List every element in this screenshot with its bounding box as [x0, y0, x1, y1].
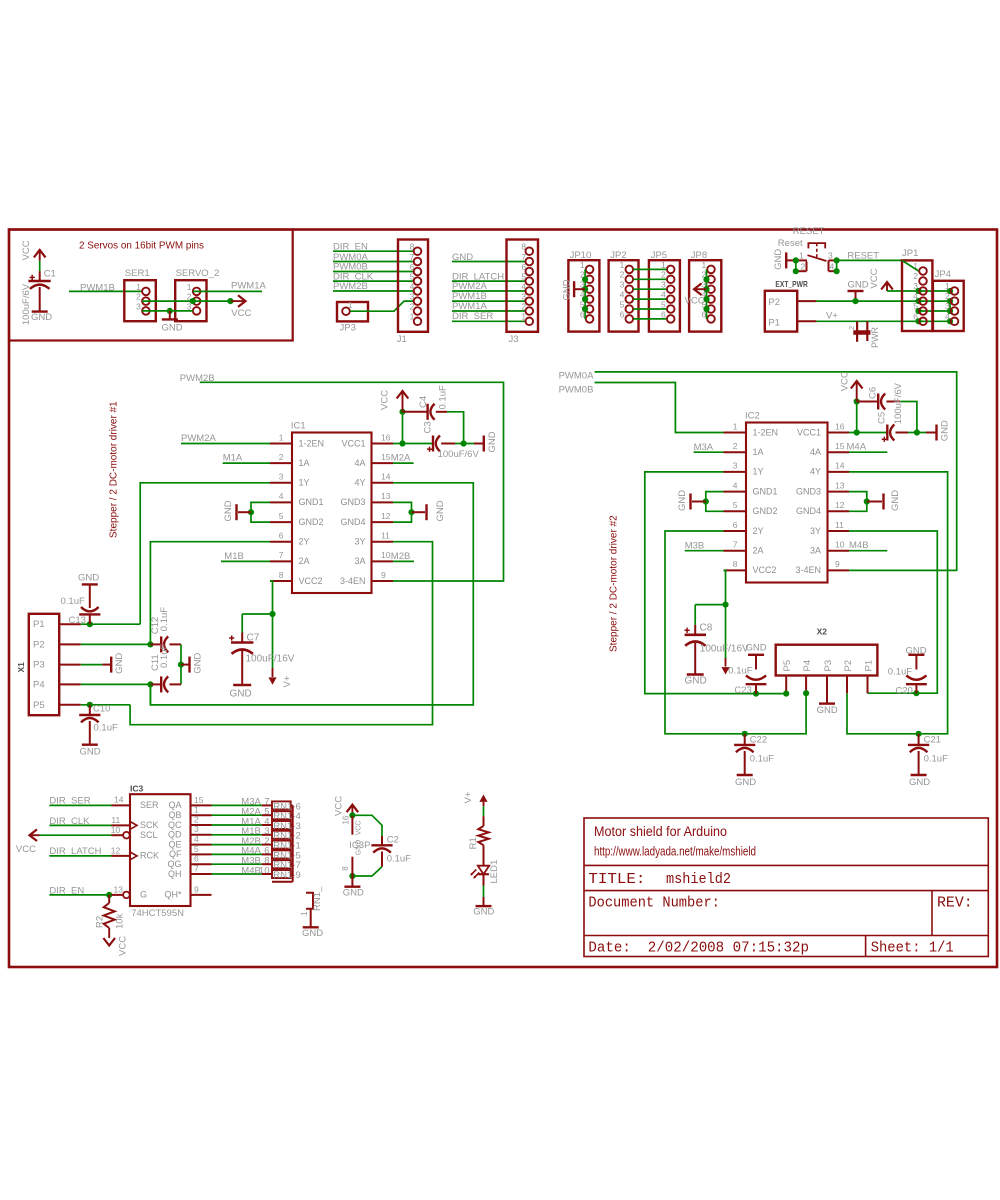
wire IC1 1Y to X1 P1	[140, 483, 270, 624]
svg-text:GND: GND	[773, 249, 784, 270]
svg-text:C21: C21	[924, 735, 941, 746]
svg-text:3: 3	[733, 461, 738, 471]
svg-text:16: 16	[381, 432, 391, 442]
ground IC2 right	[867, 501, 882, 503]
svg-text:6: 6	[661, 309, 666, 319]
power VCC down R2	[103, 938, 115, 946]
power V+ IC1	[272, 614, 274, 668]
diode LED1	[478, 866, 489, 875]
junction C4 row	[399, 409, 405, 415]
lead IC3 SCL	[112, 834, 124, 836]
svg-text:9: 9	[835, 559, 840, 569]
svg-text:PWM2A: PWM2A	[181, 433, 217, 444]
svg-text:1: 1	[733, 421, 738, 431]
wire P2 net	[816, 300, 950, 302]
junction JP1 pin4	[915, 298, 921, 304]
svg-text:GND2: GND2	[753, 506, 778, 516]
svg-text:GND: GND	[302, 928, 323, 939]
svg-text:1: 1	[187, 282, 192, 292]
svg-text:EXT_PWR: EXT_PWR	[775, 280, 807, 289]
svg-text:Stepper / 2 DC-motor driver #2: Stepper / 2 DC-motor driver #2	[609, 515, 620, 652]
ground LED1	[483, 897, 485, 906]
resistor R1	[483, 816, 485, 826]
svg-text:2Y: 2Y	[299, 537, 310, 547]
lead IC3 G	[112, 894, 124, 896]
wire VCC row to JP4 pin1	[887, 290, 950, 292]
title block divider row2	[584, 890, 988, 892]
servo section box	[9, 230, 293, 341]
wire M4A to RN1	[212, 853, 263, 855]
wire V+ to R1	[483, 806, 485, 816]
svg-text:C6: C6	[867, 387, 878, 399]
ground IC1 left	[238, 511, 251, 513]
svg-text:VCC: VCC	[333, 796, 344, 816]
wire IC1 GND3-GND4 bracket	[393, 502, 412, 522]
power V+ IC2	[725, 605, 727, 658]
connector J1 box	[398, 240, 428, 332]
svg-text:C5: C5	[877, 412, 888, 424]
svg-text:1: 1	[348, 300, 353, 310]
svg-text:5: 5	[194, 844, 199, 854]
svg-text:0.1uF: 0.1uF	[61, 596, 85, 607]
wire PWM1A from SERVO_2 pin1	[193, 290, 262, 292]
RN1_ common gate	[306, 893, 313, 909]
power VCC right arrow	[231, 300, 245, 302]
IC3 SCK clock wedge	[130, 822, 137, 830]
svg-text:M4A: M4A	[847, 442, 867, 453]
resistor RN1-1	[262, 844, 272, 846]
ground below C1	[32, 310, 48, 312]
connector JP3 pin circle	[342, 307, 350, 315]
svg-text:14: 14	[381, 472, 391, 482]
wire M1A to RN1	[212, 824, 263, 826]
capacitor C20 0.1uF	[908, 654, 924, 656]
connector JP8 circles	[707, 266, 715, 274]
wire LED to gnd	[483, 886, 485, 898]
junction IC3P gnd	[349, 873, 355, 879]
svg-text:Sheet: 1/1: Sheet: 1/1	[871, 939, 954, 957]
svg-text:11: 11	[381, 531, 390, 541]
svg-text:GND: GND	[906, 645, 927, 656]
wire X1 P3 to gnd	[81, 664, 103, 666]
title block REV divider	[931, 891, 933, 936]
LED1 emission arrows	[471, 870, 476, 875]
connector JP4 box	[933, 281, 964, 331]
title block outer box	[584, 818, 988, 957]
wire VCC to C1	[39, 261, 41, 271]
svg-text:11: 11	[111, 815, 120, 825]
connector SER1 box	[124, 280, 156, 321]
connector J3 box	[507, 240, 539, 332]
svg-text:1: 1	[279, 432, 284, 442]
power V+ LED	[479, 795, 487, 802]
op-amp IC2 box	[746, 423, 828, 583]
svg-text:13: 13	[835, 480, 845, 490]
IC3 G bubble	[123, 892, 130, 899]
svg-text:GND4: GND4	[796, 506, 821, 516]
IC2 right pin leads	[828, 432, 850, 434]
svg-text:JP3: JP3	[340, 322, 356, 333]
svg-text:7: 7	[521, 252, 526, 262]
wire DIR_CLK	[49, 824, 111, 826]
svg-text:GND: GND	[890, 490, 901, 511]
svg-text:Document Number:: Document Number:	[588, 894, 720, 912]
wire IC1 4Y to X1 P4 route	[150, 483, 473, 705]
wire C6 to pin16 row	[900, 402, 917, 433]
wire servo pin3 bus	[142, 310, 193, 312]
svg-text:2: 2	[521, 301, 526, 311]
ground C10	[82, 744, 98, 746]
svg-text:6: 6	[194, 854, 199, 864]
svg-text:1: 1	[580, 260, 585, 270]
svg-text:VCC1: VCC1	[797, 427, 821, 437]
junction C21	[916, 731, 922, 737]
svg-text:GND: GND	[162, 323, 183, 334]
wire IC1 GND1-GND2 bracket	[251, 502, 270, 522]
junction JP1 pin5	[915, 308, 921, 314]
svg-text:2: 2	[847, 326, 856, 330]
svg-text:JP1: JP1	[902, 248, 918, 259]
wire DIR_LATCH	[49, 855, 111, 857]
svg-text:1: 1	[136, 282, 141, 292]
IC3P vcc pin	[351, 815, 353, 834]
capacitor C7 100uF/16V	[241, 614, 243, 633]
svg-text:2: 2	[194, 814, 199, 824]
connector JP3 box	[337, 302, 368, 321]
wire switch left pins	[795, 260, 797, 271]
svg-text:4: 4	[410, 281, 415, 291]
capacitor C23 0.1uF	[748, 654, 764, 656]
junction IC2 gnd left	[703, 498, 709, 504]
svg-text:QH*: QH*	[164, 890, 182, 900]
svg-text:http://www.ladyada.net/make/ms: http://www.ladyada.net/make/mshield	[594, 844, 756, 859]
resistor RN1-6	[262, 804, 272, 806]
junction X2 P5	[783, 691, 789, 697]
wire VCC stem	[402, 412, 404, 444]
lead IC3 SCK	[112, 824, 131, 826]
svg-text:RCK: RCK	[140, 851, 159, 861]
junction JP4 pin1	[947, 288, 953, 294]
junctions switch left	[793, 257, 799, 263]
ground at reset switch	[785, 252, 787, 268]
svg-text:4A: 4A	[810, 447, 821, 457]
wire to C8	[695, 604, 725, 606]
svg-text:13: 13	[381, 491, 391, 501]
wire IC3P to C2 top	[352, 815, 382, 836]
svg-text:C13: C13	[69, 615, 86, 626]
svg-text:2Y: 2Y	[753, 526, 764, 536]
svg-text:QH: QH	[168, 869, 182, 879]
wire PWM2A to pin1	[181, 443, 270, 445]
svg-text:7: 7	[194, 863, 199, 873]
svg-text:GND: GND	[487, 431, 498, 452]
svg-text:JP4: JP4	[935, 269, 951, 280]
svg-text:6: 6	[410, 262, 415, 272]
svg-text:GND: GND	[78, 573, 99, 584]
svg-text:3: 3	[136, 301, 141, 311]
svg-text:1: 1	[521, 312, 526, 322]
wire M1B to pin7	[221, 560, 270, 562]
svg-text:GND: GND	[746, 643, 767, 654]
IC3 right pin leads	[191, 804, 212, 806]
svg-text:100uF/6V: 100uF/6V	[893, 382, 904, 424]
junction JP4 pin4	[947, 318, 953, 324]
wire PWM2B to J1	[333, 290, 414, 292]
wire P1 V+ net	[816, 320, 950, 322]
svg-text:SER1: SER1	[125, 268, 150, 279]
svg-text:7: 7	[279, 550, 284, 560]
svg-text:P3: P3	[33, 660, 45, 671]
svg-text:Date: 2/02/2008 07:15:32p: Date: 2/02/2008 07:15:32p	[588, 939, 809, 957]
ground IC2 left	[692, 501, 706, 503]
wire M4B	[849, 550, 887, 552]
wire DIR_SER to J3	[452, 320, 525, 322]
connector JP1 box	[902, 260, 932, 331]
svg-text:3: 3	[620, 280, 625, 290]
svg-text:7: 7	[410, 252, 415, 262]
svg-text:P5: P5	[33, 700, 45, 711]
ground IC2 vcc1	[926, 432, 937, 434]
junction C13	[87, 621, 93, 627]
power VCC IC1	[402, 392, 404, 412]
wire JP1 pin5 to JP4 pin3	[919, 310, 951, 312]
wire M1B to RN1	[212, 834, 263, 836]
svg-text:3-4EN: 3-4EN	[795, 565, 821, 575]
capacitor C8 100uF/16V	[694, 605, 696, 625]
junction IC1 gnd right	[408, 509, 414, 515]
junction VCC stem IC2	[854, 429, 860, 435]
junction JP1 pin6	[915, 318, 921, 324]
wire PWM1B to J3	[452, 300, 525, 302]
svg-text:QF: QF	[169, 849, 182, 859]
wire M4A	[849, 451, 887, 453]
wire M3B	[685, 550, 724, 552]
svg-text:SCL: SCL	[140, 830, 158, 840]
svg-text:4Y: 4Y	[354, 478, 365, 488]
wire C5 to gnd	[908, 432, 926, 434]
IC2 left pin leads	[724, 432, 747, 434]
wire C2 bottom to IC3P gnd	[352, 867, 382, 876]
lead IC3 RCK	[112, 855, 131, 857]
ground JP10	[574, 288, 585, 290]
svg-text:1Y: 1Y	[753, 467, 764, 477]
svg-text:1: 1	[799, 251, 804, 261]
wire DIR_EN to J1	[333, 250, 414, 252]
lead EXT_PWR P1	[797, 320, 816, 322]
wire IC2 4Y to X2 P2 route	[847, 472, 948, 734]
capacitor C22 0.1uF	[744, 734, 746, 745]
svg-text:QE: QE	[168, 839, 181, 849]
wire IC2 3Y to X2 P1 route	[849, 531, 937, 693]
svg-text:VCC: VCC	[356, 821, 363, 836]
svg-text:VCC: VCC	[685, 296, 705, 307]
svg-text:2: 2	[801, 262, 806, 272]
svg-text:4: 4	[913, 291, 918, 301]
svg-text:3: 3	[828, 251, 833, 261]
svg-text:V+: V+	[826, 311, 838, 322]
svg-text:R2: R2	[95, 916, 106, 928]
svg-text:C1: C1	[44, 269, 56, 280]
svg-text:5: 5	[661, 299, 666, 309]
svg-text:10: 10	[381, 550, 391, 560]
svg-text:GND3: GND3	[340, 497, 365, 507]
svg-text:C10: C10	[93, 704, 110, 715]
connector JP5 circles	[667, 266, 675, 274]
svg-text:5: 5	[733, 500, 738, 510]
svg-text:2: 2	[620, 270, 625, 280]
svg-text:GND2: GND2	[299, 517, 324, 527]
svg-text:VCC2: VCC2	[753, 565, 777, 575]
wire C12-C11 right link	[180, 644, 182, 684]
wires JP2 to JP5	[633, 268, 666, 270]
svg-text:GND4: GND4	[340, 517, 365, 527]
svg-text:GND: GND	[940, 420, 951, 441]
connector JP2 box	[609, 260, 639, 331]
IC3P gnd pin	[351, 857, 353, 876]
wire switch right pins	[836, 260, 838, 271]
svg-text:4: 4	[661, 290, 666, 300]
wire IC1 VCC1 row	[393, 443, 433, 445]
svg-text:3: 3	[521, 292, 526, 302]
svg-text:6: 6	[279, 531, 284, 541]
svg-text:3: 3	[410, 292, 415, 302]
svg-text:4: 4	[945, 311, 950, 321]
svg-text:GND: GND	[435, 500, 446, 521]
svg-text:Stepper / 2 DC-motor driver #1: Stepper / 2 DC-motor driver #1	[109, 401, 120, 538]
wire M3B to RN1	[212, 863, 263, 865]
X2 pin leads	[785, 676, 787, 694]
svg-text:0.1uF: 0.1uF	[888, 667, 912, 678]
svg-text:3Y: 3Y	[354, 537, 365, 547]
svg-text:C4: C4	[418, 396, 429, 408]
svg-text:3: 3	[194, 824, 199, 834]
svg-text:VCC2: VCC2	[299, 576, 323, 586]
svg-text:0.1uF: 0.1uF	[750, 754, 774, 765]
svg-text:P2: P2	[768, 297, 780, 308]
svg-text:P5: P5	[782, 660, 793, 672]
svg-text:M1A: M1A	[223, 453, 243, 464]
svg-text:1-2EN: 1-2EN	[299, 438, 325, 448]
op-amp IC1 box	[292, 433, 372, 594]
ground X1 P3	[102, 664, 111, 666]
junction before VCC arrow	[227, 298, 233, 304]
wire JP3 to J1 pin3	[350, 301, 413, 311]
svg-text:15: 15	[835, 441, 845, 451]
IC3 SCL bubble	[123, 832, 130, 839]
svg-text:PWM1A: PWM1A	[231, 281, 267, 292]
wire X1 P2	[81, 643, 151, 645]
svg-text:1: 1	[620, 260, 625, 270]
svg-text:GND: GND	[685, 676, 707, 687]
svg-text:RESET: RESET	[793, 226, 825, 237]
wire DIR_SER	[49, 804, 111, 806]
ground C21	[911, 774, 927, 776]
svg-text:P4: P4	[33, 679, 45, 690]
svg-text:TITLE:: TITLE:	[588, 870, 645, 888]
svg-text:16: 16	[342, 815, 351, 824]
capacitor C3 100uF/6V	[432, 436, 434, 452]
svg-text:100uF/16V: 100uF/16V	[246, 654, 295, 665]
wire PWM0A to J1	[333, 261, 414, 263]
svg-text:SCK: SCK	[140, 820, 159, 830]
ground C22	[737, 774, 753, 776]
title block divider row3	[584, 935, 988, 937]
svg-text:8: 8	[279, 570, 284, 580]
junction X2 P4	[803, 690, 809, 696]
svg-text:4: 4	[194, 834, 199, 844]
svg-text:4Y: 4Y	[810, 467, 821, 477]
svg-text:6: 6	[620, 309, 625, 319]
svg-text:2: 2	[410, 301, 415, 311]
svg-text:V+: V+	[282, 675, 293, 687]
power VCC IC2	[856, 382, 858, 402]
svg-text:3-4EN: 3-4EN	[340, 576, 366, 586]
capacitor C2 0.1uF	[381, 836, 383, 845]
connector JP5 box	[649, 260, 680, 331]
junction IC3P vcc	[349, 812, 355, 818]
junction C23	[753, 691, 759, 697]
svg-text:GND1: GND1	[299, 497, 324, 507]
connector X1 box	[29, 614, 59, 715]
capacitor C1 100uF/6V	[39, 271, 41, 281]
junction C12	[147, 641, 153, 647]
svg-text:QD: QD	[168, 830, 182, 840]
svg-text:J3: J3	[509, 334, 519, 345]
svg-text:0.1uF: 0.1uF	[159, 607, 170, 631]
svg-text:P2: P2	[843, 660, 854, 672]
IC1 right pin leads	[372, 443, 394, 445]
ground C7	[233, 684, 251, 686]
wire DIR_EN	[49, 894, 111, 896]
svg-text:11: 11	[835, 520, 844, 530]
junction C10	[87, 702, 93, 708]
junction C3 right	[461, 440, 467, 446]
wire M2A	[393, 462, 414, 464]
wire X1 P5	[81, 704, 130, 706]
capacitor C12 0.1uF	[150, 643, 161, 645]
junction C6 row	[854, 398, 860, 404]
svg-text:IC3: IC3	[130, 784, 144, 794]
svg-text:SER: SER	[140, 800, 159, 810]
svg-text:P1: P1	[33, 619, 45, 630]
svg-text:M1B: M1B	[224, 551, 244, 562]
wire M2A to RN1	[212, 814, 263, 816]
wire to C7	[242, 613, 272, 615]
svg-text:C3: C3	[423, 421, 434, 433]
junctions JP8	[703, 276, 709, 282]
IC1 left pin leads	[270, 443, 292, 445]
wire X1 P4	[81, 683, 151, 685]
svg-text:GND: GND	[735, 777, 756, 788]
connector EXT_PWR box	[765, 291, 797, 332]
power VCC JP1	[886, 283, 888, 291]
wire DIR_CLK to J1	[333, 280, 414, 282]
wire M2B to RN1	[212, 844, 263, 846]
svg-text:15: 15	[194, 795, 204, 805]
svg-text:4: 4	[733, 480, 738, 490]
wire PWM2A to J3	[452, 290, 525, 292]
svg-text:V+: V+	[463, 791, 474, 803]
svg-text:2: 2	[945, 291, 950, 301]
svg-text:QB: QB	[168, 810, 181, 820]
svg-text:3Y: 3Y	[810, 526, 821, 536]
svg-text:GND: GND	[80, 747, 101, 758]
resistor RN1-2	[262, 834, 272, 836]
svg-text:M4B: M4B	[849, 540, 869, 551]
junction C20	[913, 690, 919, 696]
svg-text:PWM0B: PWM0B	[559, 384, 594, 395]
svg-text:GND: GND	[114, 653, 125, 674]
